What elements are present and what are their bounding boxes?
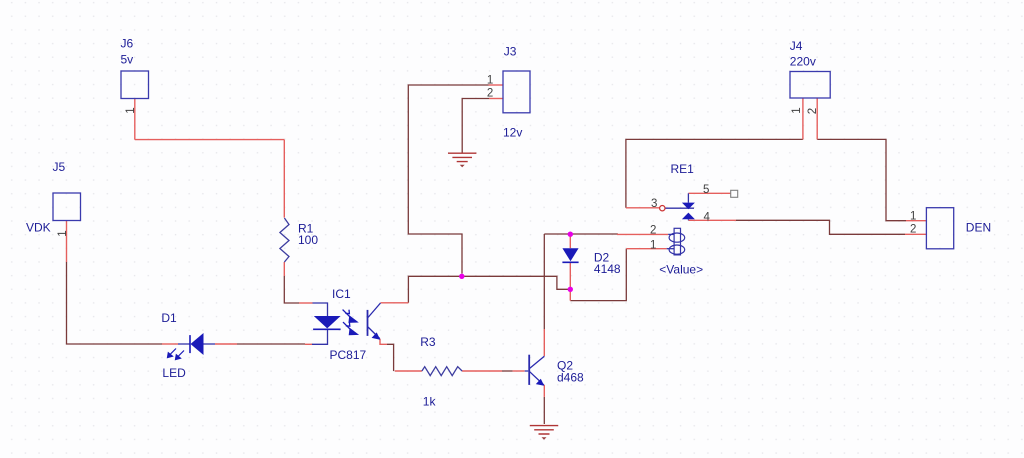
svg-text:1: 1 [910,210,916,222]
svg-text:IC1: IC1 [332,287,351,301]
svg-text:2: 2 [487,88,493,100]
svg-text:4: 4 [704,212,711,224]
svg-text:J4: J4 [790,39,803,53]
svg-text:220v: 220v [790,55,816,69]
svg-text:J3: J3 [504,45,517,59]
svg-text:RE1: RE1 [671,162,695,176]
svg-text:<Value>: <Value> [659,262,703,276]
svg-text:J5: J5 [53,160,66,174]
svg-text:D1: D1 [161,311,177,325]
svg-text:4148: 4148 [594,262,621,276]
svg-text:2: 2 [910,223,916,235]
svg-text:DEN: DEN [966,221,991,235]
svg-text:1: 1 [57,230,69,236]
svg-text:5v: 5v [121,52,134,66]
svg-text:R3: R3 [420,335,436,349]
svg-text:100: 100 [298,233,318,247]
svg-text:d468: d468 [557,371,584,385]
svg-text:1: 1 [125,107,137,113]
svg-text:5: 5 [703,184,709,196]
svg-text:1k: 1k [423,394,437,408]
svg-text:3: 3 [651,198,657,210]
svg-text:2: 2 [807,108,819,114]
svg-text:2: 2 [650,224,656,236]
svg-text:VDK: VDK [26,221,51,235]
svg-text:PC817: PC817 [330,348,367,362]
svg-text:1: 1 [791,107,803,113]
svg-text:1: 1 [650,239,656,251]
svg-text:J6: J6 [121,36,134,50]
svg-text:1: 1 [487,75,493,87]
svg-text:LED: LED [162,366,186,380]
svg-text:12v: 12v [503,126,522,140]
